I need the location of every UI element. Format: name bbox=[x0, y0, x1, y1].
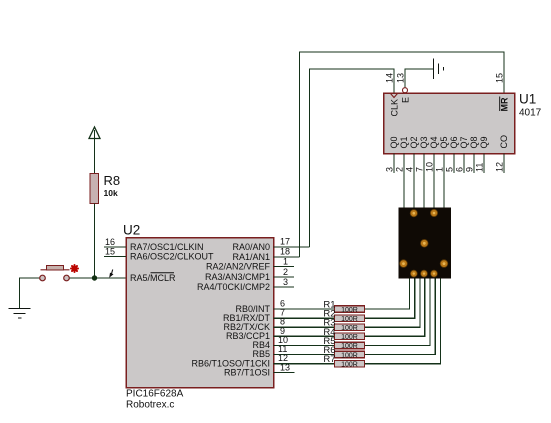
resistor R3 bbox=[335, 324, 365, 331]
svg-text:CLK: CLK bbox=[390, 99, 400, 117]
svg-text:4017: 4017 bbox=[519, 108, 542, 119]
svg-text:Q5: Q5 bbox=[439, 136, 449, 148]
svg-text:100R: 100R bbox=[341, 325, 358, 332]
svg-text:RA7/OSC1/CLKIN: RA7/OSC1/CLKIN bbox=[130, 242, 204, 252]
pin 16 stub RA7 bbox=[104, 246, 126, 248]
svg-text:2: 2 bbox=[283, 267, 288, 277]
die pad mid-right bbox=[440, 260, 448, 268]
wire R2 riser bbox=[365, 279, 415, 319]
pin 17 stub RA0 + wire to CLK column bbox=[274, 246, 310, 248]
pin 3 stub RA4 bbox=[274, 286, 295, 288]
svg-text:100R: 100R bbox=[341, 307, 358, 314]
ground bbox=[9, 309, 31, 319]
pin 15 stub RA6 bbox=[104, 256, 126, 258]
resistor R1 bbox=[335, 306, 365, 313]
resistor R2 bbox=[335, 315, 365, 322]
U2 left pin labels bbox=[130, 242, 214, 283]
svg-text:RA3/AN3/CMP1: RA3/AN3/CMP1 bbox=[205, 272, 270, 282]
pin 18 stub RA1 + wire to MR column bbox=[274, 256, 300, 258]
resistor R8 bbox=[90, 174, 99, 204]
svg-text:8: 8 bbox=[280, 317, 285, 327]
resistor R5 bbox=[335, 342, 365, 349]
svg-text:RA5/MCLR: RA5/MCLR bbox=[130, 273, 176, 283]
wire R8 to junction bbox=[94, 204, 96, 279]
svg-text:Q7: Q7 bbox=[459, 136, 469, 148]
wire R5 riser bbox=[365, 279, 431, 346]
svg-text:17: 17 bbox=[280, 237, 290, 247]
wire power to R8 bbox=[94, 130, 96, 174]
U1 pin 10 wire Q4 to die bbox=[433, 154, 435, 213]
wire R3 riser bbox=[365, 279, 421, 328]
svg-text:MR: MR bbox=[500, 97, 510, 111]
svg-text:RA1/AN1: RA1/AN1 bbox=[232, 252, 270, 262]
die pad top-right bbox=[430, 209, 437, 216]
pin 6 wire RB0 bbox=[274, 308, 335, 310]
svg-text:RA4/T0CKI/CMP2: RA4/T0CKI/CMP2 bbox=[197, 282, 270, 292]
wire R6 riser bbox=[365, 279, 436, 355]
svg-text:U1: U1 bbox=[519, 92, 536, 107]
pin 10 wire RB4 bbox=[274, 344, 335, 346]
wire button to U2 RA5 bbox=[70, 277, 127, 279]
svg-text:Q0: Q0 bbox=[389, 136, 399, 148]
svg-text:5: 5 bbox=[445, 167, 455, 172]
net direction arrow on RA5 wire bbox=[109, 270, 113, 278]
U1 pin 9 stub Q8 bbox=[473, 154, 475, 174]
svg-text:Q1: Q1 bbox=[399, 136, 409, 148]
svg-text:16: 16 bbox=[105, 237, 115, 247]
wire ground to button left terminal bbox=[20, 278, 41, 309]
die pad top-left bbox=[410, 210, 417, 217]
U1 pin 7 wire Q3 to die bbox=[423, 154, 425, 210]
IC U2 PIC16F628A body bbox=[126, 238, 274, 388]
svg-text:Q4: Q4 bbox=[429, 136, 439, 148]
svg-text:9: 9 bbox=[465, 167, 475, 172]
svg-text:100R: 100R bbox=[341, 316, 358, 323]
wire R1 riser bbox=[365, 279, 410, 310]
ground (rotated, at U1 E) bbox=[434, 59, 444, 80]
svg-text:15: 15 bbox=[105, 247, 115, 257]
junction bbox=[92, 275, 97, 280]
svg-text:Robotrex.c: Robotrex.c bbox=[126, 400, 174, 411]
svg-text:R7: R7 bbox=[323, 354, 335, 365]
U1 pin 2 wire Q1 to die bbox=[403, 154, 405, 210]
svg-text:Q6: Q6 bbox=[449, 136, 459, 148]
svg-text:Q9: Q9 bbox=[479, 136, 489, 148]
svg-text:CO: CO bbox=[499, 135, 509, 149]
pin 11 wire RB5 bbox=[274, 354, 335, 356]
svg-text:U2: U2 bbox=[123, 223, 140, 238]
U1 pin 11 stub Q9 bbox=[483, 154, 485, 174]
svg-text:RA0/AN0: RA0/AN0 bbox=[232, 242, 270, 252]
die pad center bbox=[421, 240, 429, 248]
U1 pin 3 stub Q0 bbox=[393, 154, 395, 174]
U2 right pin labels bbox=[191, 242, 270, 378]
wire net RA0 to U1 CLK bbox=[310, 69, 395, 247]
resistor R4 bbox=[335, 333, 365, 340]
svg-text:1: 1 bbox=[283, 257, 288, 267]
U1 CLK edge wedge bbox=[391, 94, 398, 98]
LED dice module body bbox=[399, 208, 452, 279]
IC U1 4017 body bbox=[384, 93, 515, 154]
svg-text:RA6/OSC2/CLKOUT: RA6/OSC2/CLKOUT bbox=[130, 252, 214, 262]
svg-text:13: 13 bbox=[396, 73, 406, 83]
svg-text:Q3: Q3 bbox=[419, 136, 429, 148]
pin 2 stub RA3 bbox=[274, 276, 295, 278]
MR overline bbox=[499, 97, 501, 112]
svg-text:RB5: RB5 bbox=[252, 349, 270, 359]
svg-text:Q2: Q2 bbox=[409, 136, 419, 148]
svg-text:100R: 100R bbox=[341, 361, 358, 368]
svg-text:Q8: Q8 bbox=[469, 136, 479, 148]
resistor R6 bbox=[335, 351, 365, 358]
svg-text:15: 15 bbox=[495, 73, 505, 83]
svg-text:6: 6 bbox=[455, 167, 465, 172]
U1 pin 1 wire Q5 to die bbox=[443, 154, 445, 210]
svg-text:PIC16F628A: PIC16F628A bbox=[126, 389, 184, 400]
pin 13 stub RB7 bbox=[274, 372, 295, 374]
MCLR overline bbox=[151, 272, 175, 274]
svg-text:RB7/T1OSI: RB7/T1OSI bbox=[224, 368, 270, 378]
pin 7 wire RB1 bbox=[274, 317, 335, 319]
svg-text:3: 3 bbox=[385, 167, 395, 172]
svg-text:100R: 100R bbox=[341, 334, 358, 341]
interactive marker (red star) bbox=[71, 265, 78, 272]
U1 pin 6 stub Q7 bbox=[463, 154, 465, 174]
svg-text:100R: 100R bbox=[341, 352, 358, 359]
svg-text:1: 1 bbox=[435, 167, 445, 172]
svg-text:12: 12 bbox=[278, 353, 288, 363]
die pad mid-left bbox=[400, 260, 408, 268]
wire R4 riser bbox=[365, 279, 425, 337]
U1 pin 12 stub CO bbox=[503, 154, 505, 174]
pin 9 wire RB3 bbox=[274, 335, 335, 337]
die pad bottom-2 bbox=[421, 270, 428, 277]
resistor R7 bbox=[335, 360, 365, 367]
pin 12 wire RB6 bbox=[274, 363, 335, 365]
U1 E inversion bubble bbox=[403, 88, 408, 93]
power terminal +V bbox=[89, 127, 100, 139]
wire U1 E to ground bbox=[405, 69, 434, 88]
die pad bottom-1 bbox=[410, 270, 417, 277]
svg-text:7: 7 bbox=[415, 167, 425, 172]
svg-text:R8: R8 bbox=[104, 173, 121, 188]
svg-text:RA2/AN2/VREF: RA2/AN2/VREF bbox=[206, 262, 271, 272]
svg-text:3: 3 bbox=[283, 277, 288, 287]
wire R7 riser bbox=[365, 279, 441, 364]
svg-text:2: 2 bbox=[395, 167, 405, 172]
svg-text:4: 4 bbox=[405, 167, 415, 172]
wire net RA1 to U1 MR (vertical + top run) bbox=[300, 52, 505, 257]
U1 pin 5 stub Q6 bbox=[453, 154, 455, 174]
pin 8 wire RB2 bbox=[274, 326, 335, 328]
svg-text:10: 10 bbox=[425, 162, 435, 172]
svg-text:12: 12 bbox=[495, 162, 505, 172]
svg-text:E: E bbox=[401, 97, 411, 103]
svg-text:100R: 100R bbox=[341, 343, 358, 350]
U1 bottom pin labels Q0..Q9, CO bbox=[389, 135, 509, 149]
push button bbox=[40, 266, 70, 281]
U1 pin 4 wire Q2 to die bbox=[413, 154, 415, 213]
svg-text:14: 14 bbox=[385, 73, 395, 83]
die pad bottom-3 bbox=[431, 270, 438, 277]
svg-text:10k: 10k bbox=[104, 188, 118, 198]
svg-text:18: 18 bbox=[280, 247, 290, 257]
pin 1 stub RA2 bbox=[274, 266, 295, 268]
svg-text:11: 11 bbox=[475, 163, 485, 172]
